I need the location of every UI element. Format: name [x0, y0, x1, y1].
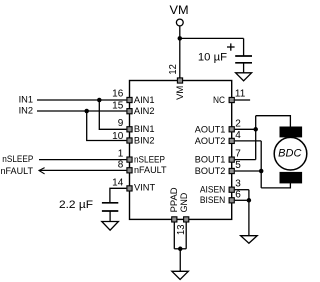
svg-text:BISEN: BISEN [200, 195, 226, 206]
svg-text:4: 4 [235, 130, 241, 141]
svg-text:VINT: VINT [134, 183, 155, 194]
svg-text:nSLEEP: nSLEEP [134, 155, 165, 166]
svg-text:BOUT2: BOUT2 [195, 166, 226, 177]
svg-text:GND: GND [179, 193, 190, 213]
svg-text:IN2: IN2 [19, 106, 34, 117]
svg-text:1: 1 [118, 148, 124, 159]
svg-text:2: 2 [235, 118, 241, 129]
svg-text:12: 12 [168, 64, 179, 75]
svg-text:VM: VM [170, 3, 189, 17]
svg-text:6: 6 [235, 189, 241, 200]
svg-text:5: 5 [235, 160, 241, 171]
svg-text:IN1: IN1 [19, 94, 34, 105]
svg-text:2.2 µF: 2.2 µF [59, 199, 93, 211]
svg-text:nFAULT: nFAULT [1, 166, 34, 177]
svg-text:10: 10 [112, 131, 124, 142]
svg-text:AIN2: AIN2 [134, 106, 155, 117]
svg-text:3: 3 [235, 179, 241, 190]
svg-text:BOUT1: BOUT1 [195, 155, 226, 166]
svg-text:9: 9 [118, 118, 124, 129]
svg-text:8: 8 [118, 160, 124, 171]
svg-text:15: 15 [112, 101, 124, 112]
svg-text:13: 13 [176, 224, 187, 235]
svg-text:AIN1: AIN1 [134, 95, 155, 106]
svg-text:BIN2: BIN2 [134, 135, 155, 146]
svg-text:AOUT2: AOUT2 [195, 136, 226, 147]
svg-text:7: 7 [235, 149, 241, 160]
svg-text:NC: NC [213, 95, 225, 106]
svg-text:10 µF: 10 µF [198, 51, 227, 63]
svg-text:16: 16 [112, 88, 124, 99]
svg-text:BIN1: BIN1 [134, 124, 155, 135]
svg-text:AISEN: AISEN [200, 185, 226, 196]
svg-text:nFAULT: nFAULT [134, 165, 167, 176]
svg-text:14: 14 [112, 178, 124, 189]
svg-text:BDC: BDC [278, 148, 301, 160]
svg-text:VM: VM [175, 86, 186, 100]
svg-text:nSLEEP: nSLEEP [2, 154, 33, 165]
svg-text:11: 11 [235, 88, 246, 99]
svg-text:AOUT1: AOUT1 [195, 124, 226, 135]
